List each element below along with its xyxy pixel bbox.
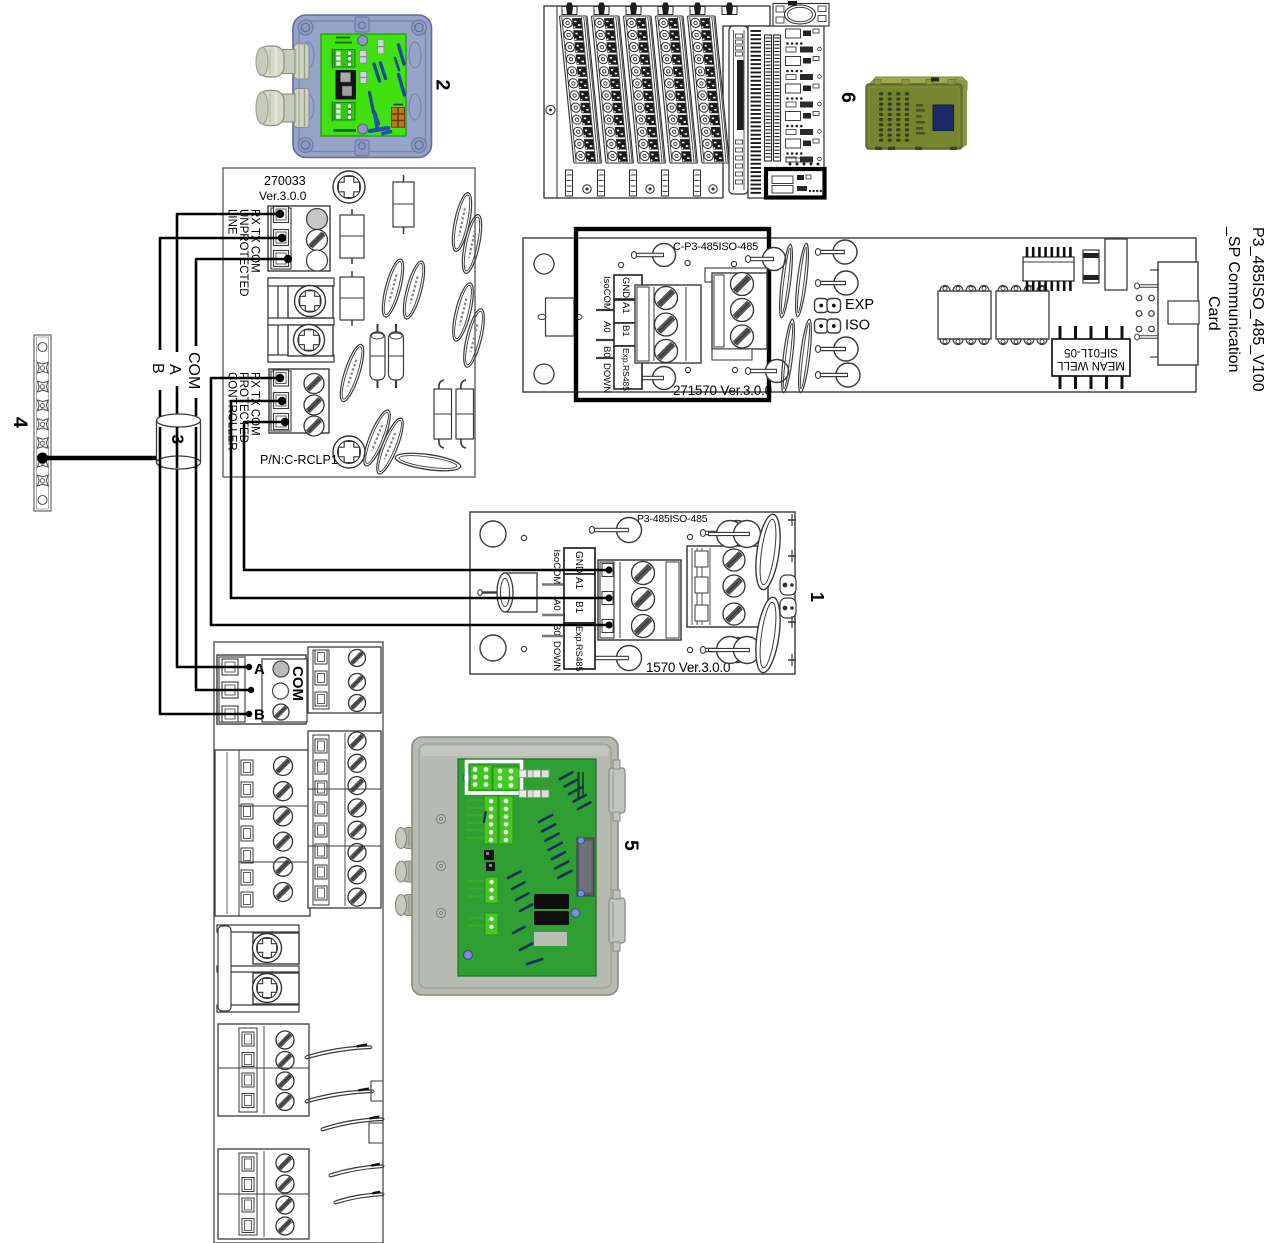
svg-text:B: B <box>149 363 166 374</box>
svg-text:1570 Ver.3.0.0: 1570 Ver.3.0.0 <box>646 660 730 675</box>
svg-text:2: 2 <box>432 80 454 91</box>
svg-text:270033: 270033 <box>264 174 306 188</box>
svg-text:A: A <box>254 661 265 678</box>
svg-text:B: B <box>254 707 265 724</box>
svg-text:DOWN: DOWN <box>551 641 562 671</box>
svg-text:IsoCOM: IsoCOM <box>601 276 612 311</box>
svg-text:A0: A0 <box>601 321 612 333</box>
svg-text:A0: A0 <box>551 599 562 611</box>
svg-text:1: 1 <box>807 592 827 602</box>
svg-text:EXP: EXP <box>845 297 874 313</box>
svg-text:GND: GND <box>620 277 631 298</box>
svg-text:Ver.3.0.0: Ver.3.0.0 <box>259 189 307 203</box>
svg-text:B0: B0 <box>601 346 612 358</box>
svg-text:B1: B1 <box>620 325 631 337</box>
svg-text:SIF01L-05: SIF01L-05 <box>1064 346 1118 358</box>
svg-text:ISO: ISO <box>845 318 870 334</box>
svg-text:A: A <box>166 364 183 375</box>
svg-text:COM: COM <box>289 666 306 701</box>
svg-text:DOWN: DOWN <box>601 363 612 393</box>
svg-text:B1: B1 <box>573 601 584 614</box>
svg-text:IsoCOM: IsoCOM <box>551 550 562 585</box>
svg-text:Exp.RS485: Exp.RS485 <box>621 348 631 391</box>
svg-text:5: 5 <box>620 840 642 851</box>
svg-text:P/N:C-RCLP1: P/N:C-RCLP1 <box>260 453 338 467</box>
svg-text:C-P3-485ISO-485: C-P3-485ISO-485 <box>673 241 758 253</box>
svg-text:6: 6 <box>837 92 859 103</box>
svg-text:Card: Card <box>1205 296 1222 331</box>
svg-text:A1: A1 <box>573 577 584 590</box>
svg-text:4: 4 <box>9 417 31 428</box>
svg-text:271570 Ver.3.0.0: 271570 Ver.3.0.0 <box>673 383 772 398</box>
svg-text:A1: A1 <box>620 302 631 314</box>
svg-text:COM: COM <box>185 352 202 389</box>
svg-text:MEAN WELL: MEAN WELL <box>1057 359 1125 371</box>
svg-text:P3-485ISO-485: P3-485ISO-485 <box>637 513 708 525</box>
svg-text:Exp.RS485: Exp.RS485 <box>574 626 584 672</box>
